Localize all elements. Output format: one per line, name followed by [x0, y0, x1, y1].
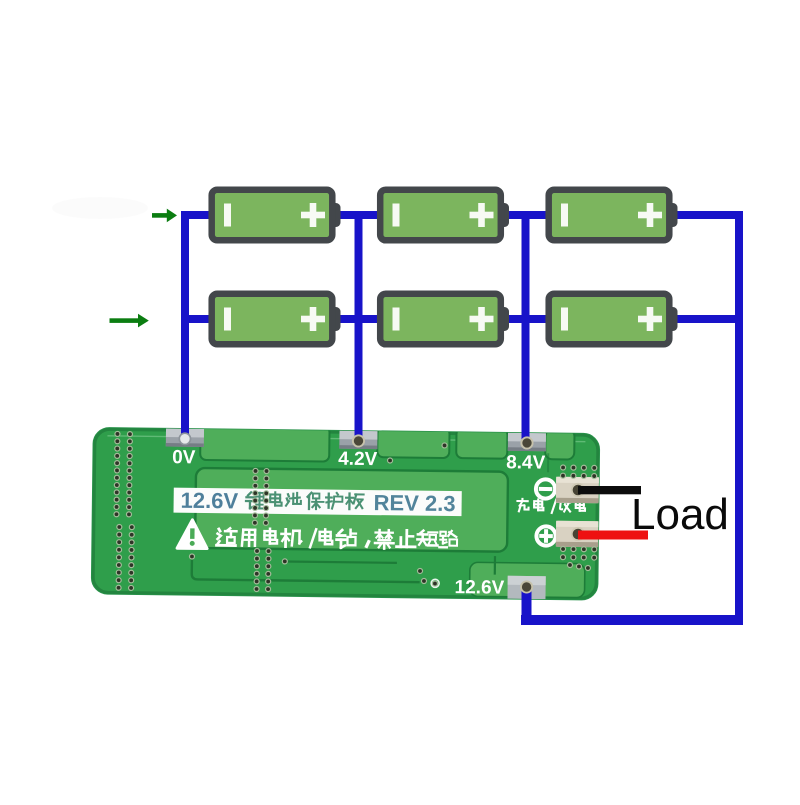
svg-text:4.2V: 4.2V: [338, 449, 378, 470]
svg-text:8.4V: 8.4V: [506, 452, 546, 473]
svg-text:Load: Load: [631, 490, 729, 539]
svg-text:12.6V: 12.6V: [454, 577, 504, 599]
svg-text:12.6V: 12.6V: [181, 488, 239, 514]
svg-text:0V: 0V: [172, 447, 196, 468]
svg-text:REV 2.3: REV 2.3: [373, 490, 455, 516]
